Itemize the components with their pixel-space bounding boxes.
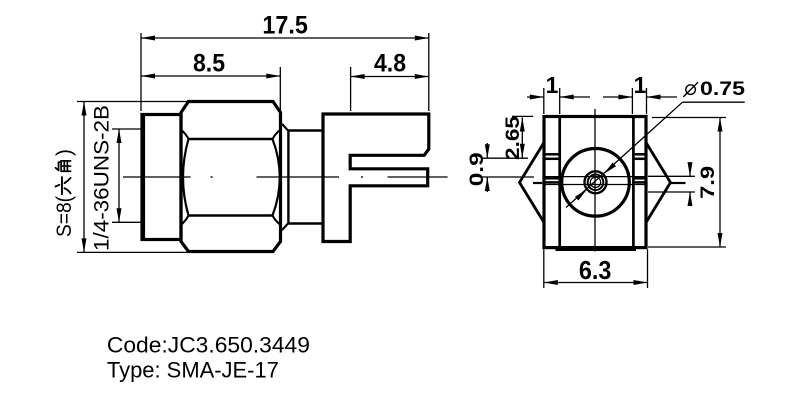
svg-text:1/4-36UNS-2B: 1/4-36UNS-2B — [91, 105, 114, 251]
svg-text:1: 1 — [546, 72, 559, 98]
hex corner small arc top-left — [181, 130, 189, 140]
left leg inner edge — [558, 117, 561, 250]
flange with top mounting tab and center pin (F profile) — [323, 114, 429, 242]
connector barrel (threaded coupling) — [142, 115, 181, 240]
gasket ring chamfer top — [282, 124, 288, 131]
dimension 1/4-36UNS-2B thread — [112, 129, 142, 222]
hex nut outline — [181, 102, 281, 252]
hex corner point right — [646, 143, 671, 223]
gasket ring chamfer bottom — [282, 224, 288, 231]
hex flat edge ticks right — [635, 154, 645, 182]
svg-text:0.75: 0.75 — [700, 79, 746, 100]
svg-text:Code:JC3.650.3449: Code:JC3.650.3449 — [107, 333, 310, 358]
pin edge thin lines across — [545, 176, 645, 178]
small dimension right of hex point — [648, 162, 695, 206]
gasket ring edge — [287, 130, 289, 225]
hex face boundary top — [189, 138, 273, 141]
dimension 2.65 — [481, 116, 533, 158]
barrel end face edge — [143, 113, 145, 241]
glyph liu (six) — [56, 177, 71, 194]
vertical centerline — [594, 109, 596, 252]
neck between ring and flange — [288, 129, 322, 132]
hex flat edge ticks left — [545, 154, 558, 182]
label S=8(hex) rotated — [53, 149, 76, 237]
dimension S=8 hex across flats — [77, 102, 189, 253]
hex corner small arc bottom-left — [181, 216, 189, 226]
svg-text:Type: SMA-JE-17: Type: SMA-JE-17 — [107, 358, 279, 383]
dimension 1 (left leg) — [527, 72, 590, 114]
svg-text:7.9: 7.9 — [698, 166, 719, 199]
dimension 8.5 — [141, 50, 280, 112]
svg-text:): ) — [53, 149, 76, 156]
svg-text:1: 1 — [634, 72, 647, 98]
svg-text:2.65: 2.65 — [503, 115, 524, 160]
bottom lip — [556, 249, 637, 251]
svg-text:4.8: 4.8 — [374, 50, 406, 78]
dimension 6.3 — [544, 249, 648, 288]
svg-text:0.9: 0.9 — [467, 152, 488, 186]
hex point center ticks — [533, 182, 542, 184]
right leg inner edge — [632, 117, 635, 250]
svg-text:8.5: 8.5 — [193, 50, 225, 78]
leader and label dia 0.75 — [566, 79, 746, 208]
hex face boundary bottom — [189, 214, 273, 217]
hex corner small arc bottom-right — [273, 216, 281, 226]
svg-text:S=8(: S=8( — [53, 196, 76, 237]
dimension 7.9 — [648, 118, 726, 248]
hex corner arc right — [273, 139, 280, 216]
svg-text:17.5: 17.5 — [262, 12, 308, 40]
center contact circles — [585, 171, 607, 193]
hex corner point left — [520, 143, 545, 223]
hex corner small arc top-right — [273, 130, 281, 140]
body square flange — [544, 117, 646, 248]
glyph jiao (angle) — [56, 161, 71, 171]
hex corner arc left — [183, 139, 189, 216]
centerline of side view — [123, 176, 191, 178]
dimension 0.9 (left of end view) — [481, 143, 534, 192]
coupling circle — [562, 149, 630, 217]
dimension 17.5 — [141, 12, 429, 111]
svg-text:6.3: 6.3 — [579, 257, 612, 285]
dimension 4.8 — [351, 50, 429, 111]
dimension 1 (right leg) — [603, 72, 677, 114]
label 1/4-36UNS-2B rotated — [91, 105, 114, 251]
